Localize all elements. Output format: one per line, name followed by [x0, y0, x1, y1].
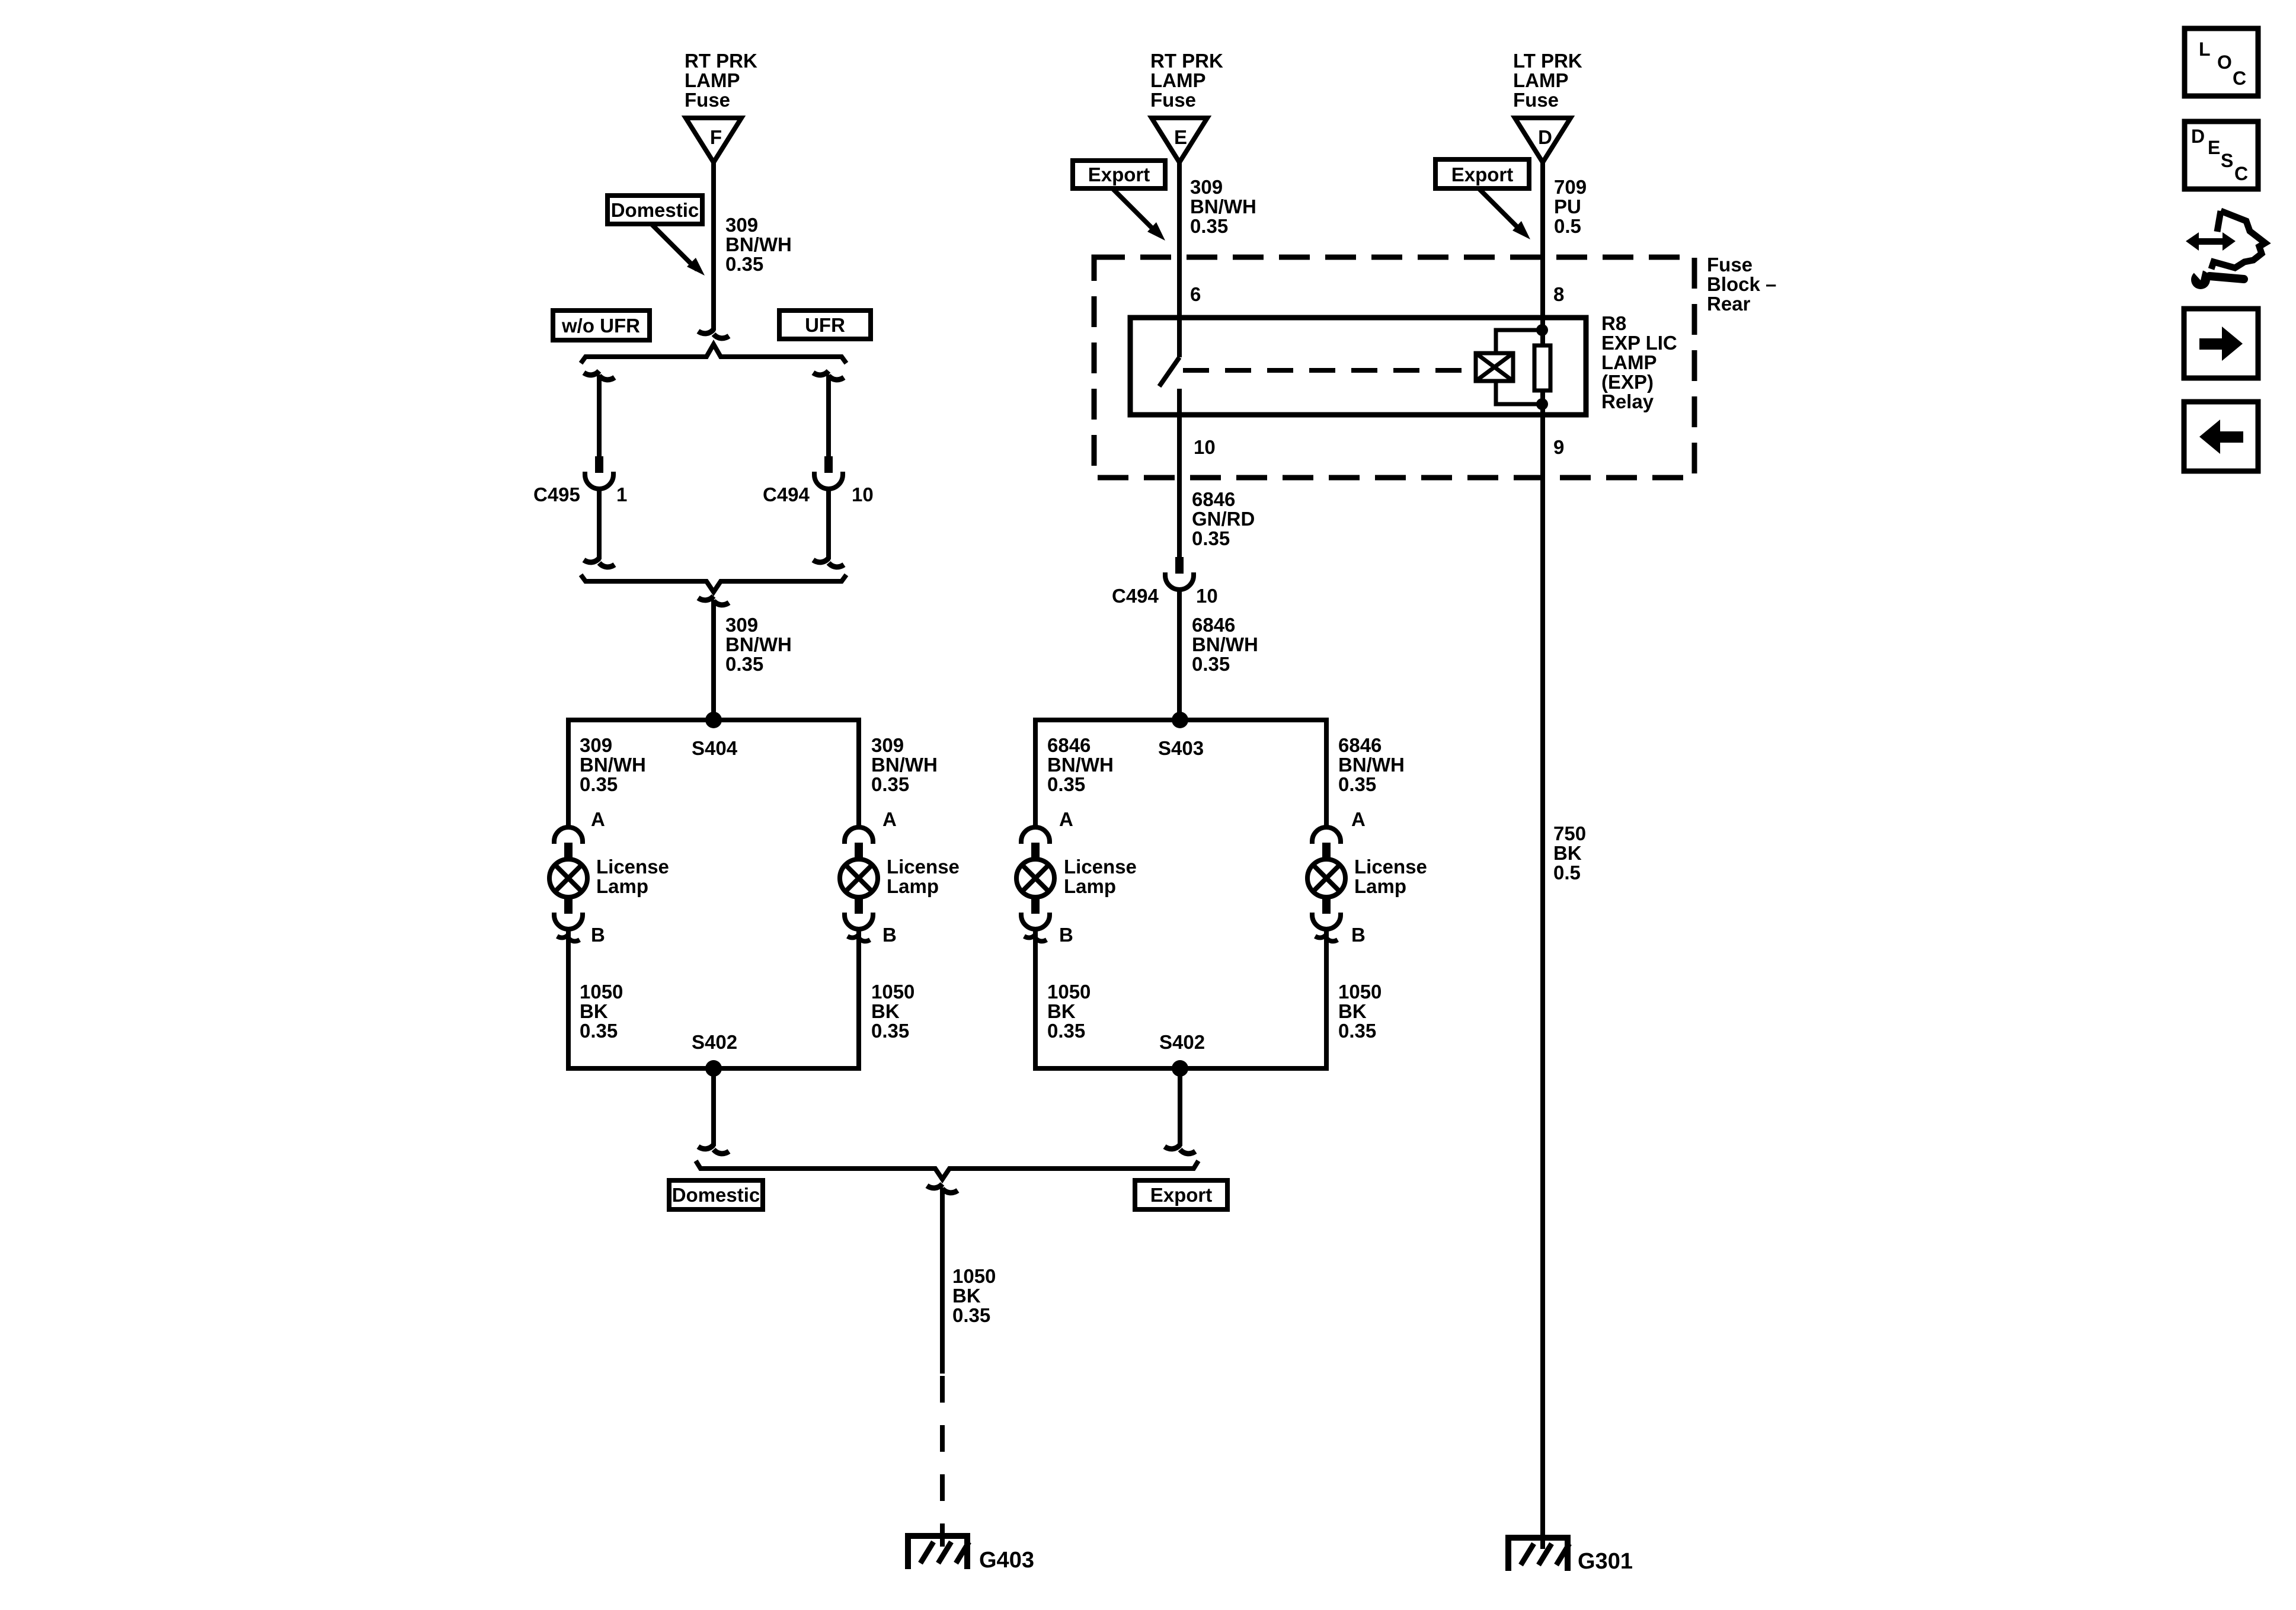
svg-text:0.35: 0.35 [1338, 773, 1376, 795]
svg-text:License: License [596, 856, 669, 878]
svg-text:LAMP: LAMP [1513, 69, 1569, 91]
svg-text:BK: BK [580, 1000, 608, 1022]
svg-text:0.35: 0.35 [725, 253, 763, 275]
svg-text:O: O [2217, 52, 2232, 73]
svg-text:Fuse: Fuse [685, 89, 730, 111]
svg-text:309: 309 [580, 734, 612, 756]
svg-text:0.35: 0.35 [1047, 1020, 1085, 1042]
svg-text:BN/WH: BN/WH [725, 633, 792, 655]
svg-text:309: 309 [725, 614, 758, 636]
svg-text:Fuse: Fuse [1707, 254, 1753, 276]
svg-text:BN/WH: BN/WH [1192, 633, 1258, 655]
svg-text:L: L [2199, 39, 2211, 60]
svg-text:C494: C494 [1112, 585, 1159, 607]
svg-text:Domestic: Domestic [672, 1184, 760, 1206]
svg-text:Lamp: Lamp [887, 875, 939, 897]
svg-text:B: B [591, 924, 605, 946]
svg-text:B: B [1059, 924, 1073, 946]
svg-text:License: License [1354, 856, 1427, 878]
svg-text:D: D [1538, 126, 1552, 148]
svg-text:C: C [2234, 163, 2248, 184]
svg-text:GN/RD: GN/RD [1192, 508, 1255, 530]
svg-text:0.5: 0.5 [1554, 215, 1581, 237]
svg-text:A: A [1351, 808, 1366, 830]
svg-text:PU: PU [1554, 196, 1581, 217]
svg-text:A: A [1059, 808, 1073, 830]
svg-text:1050: 1050 [952, 1265, 996, 1287]
svg-text:0.35: 0.35 [1047, 773, 1085, 795]
svg-text:License: License [887, 856, 960, 878]
svg-text:0.35: 0.35 [952, 1304, 990, 1326]
svg-text:S404: S404 [692, 737, 738, 759]
svg-text:BK: BK [1047, 1000, 1076, 1022]
svg-text:709: 709 [1554, 176, 1587, 198]
svg-text:Fuse: Fuse [1513, 89, 1559, 111]
svg-text:D: D [2191, 126, 2205, 147]
svg-text:Lamp: Lamp [1064, 875, 1116, 897]
svg-text:Fuse: Fuse [1150, 89, 1196, 111]
svg-text:1: 1 [616, 484, 627, 505]
svg-text:6846: 6846 [1192, 614, 1235, 636]
svg-text:B: B [1351, 924, 1366, 946]
svg-text:G403: G403 [979, 1548, 1034, 1573]
svg-text:RT PRK: RT PRK [1150, 50, 1223, 72]
svg-text:10: 10 [1194, 436, 1216, 458]
svg-text:0.35: 0.35 [871, 773, 909, 795]
svg-text:RT PRK: RT PRK [685, 50, 757, 72]
svg-text:Export: Export [1150, 1184, 1213, 1206]
svg-text:Relay: Relay [1601, 391, 1654, 412]
svg-text:A: A [882, 808, 897, 830]
svg-text:750: 750 [1553, 822, 1586, 844]
svg-text:Export: Export [1451, 164, 1514, 185]
svg-text:BK: BK [871, 1000, 900, 1022]
svg-text:BK: BK [952, 1285, 981, 1307]
svg-text:0.35: 0.35 [1190, 215, 1228, 237]
svg-text:0.35: 0.35 [580, 1020, 618, 1042]
svg-text:Block –: Block – [1707, 273, 1776, 295]
svg-text:6846: 6846 [1338, 734, 1382, 756]
svg-text:Rear: Rear [1707, 293, 1751, 315]
svg-text:S402: S402 [692, 1031, 737, 1053]
svg-text:10: 10 [852, 484, 874, 505]
svg-text:S403: S403 [1158, 737, 1204, 759]
svg-text:C: C [2233, 68, 2246, 89]
svg-text:1050: 1050 [1047, 981, 1091, 1003]
svg-text:BK: BK [1553, 842, 1582, 864]
svg-text:0.5: 0.5 [1553, 862, 1581, 884]
svg-text:BN/WH: BN/WH [1190, 196, 1256, 217]
svg-text:Lamp: Lamp [1354, 875, 1406, 897]
svg-text:BN/WH: BN/WH [1338, 754, 1405, 776]
svg-text:9: 9 [1553, 436, 1564, 458]
svg-text:LAMP: LAMP [685, 69, 740, 91]
svg-text:309: 309 [1190, 176, 1223, 198]
svg-text:LAMP: LAMP [1601, 351, 1657, 373]
svg-text:B: B [882, 924, 897, 946]
svg-text:0.35: 0.35 [580, 773, 618, 795]
svg-text:LAMP: LAMP [1150, 69, 1206, 91]
svg-text:309: 309 [725, 214, 758, 236]
svg-text:BN/WH: BN/WH [1047, 754, 1114, 776]
svg-text:UFR: UFR [805, 314, 845, 336]
svg-text:0.35: 0.35 [871, 1020, 909, 1042]
svg-text:1050: 1050 [871, 981, 914, 1003]
svg-text:C495: C495 [533, 484, 580, 505]
svg-text:6846: 6846 [1192, 488, 1235, 510]
svg-text:C494: C494 [763, 484, 810, 505]
svg-text:Export: Export [1088, 164, 1150, 185]
svg-text:EXP LIC: EXP LIC [1601, 332, 1677, 354]
svg-text:S402: S402 [1159, 1031, 1205, 1053]
svg-text:309: 309 [871, 734, 904, 756]
svg-text:(EXP): (EXP) [1601, 371, 1654, 393]
svg-text:BN/WH: BN/WH [725, 233, 792, 255]
svg-text:6: 6 [1190, 283, 1201, 305]
svg-text:0.35: 0.35 [1192, 527, 1230, 549]
svg-text:BK: BK [1338, 1000, 1367, 1022]
svg-text:BN/WH: BN/WH [580, 754, 646, 776]
svg-text:G301: G301 [1578, 1549, 1633, 1574]
svg-text:S: S [2221, 150, 2233, 171]
svg-text:10: 10 [1196, 585, 1218, 607]
svg-text:0.35: 0.35 [1338, 1020, 1376, 1042]
svg-text:License: License [1064, 856, 1137, 878]
svg-text:8: 8 [1553, 283, 1564, 305]
svg-text:0.35: 0.35 [1192, 653, 1230, 675]
svg-text:E: E [1174, 126, 1187, 148]
svg-text:6846: 6846 [1047, 734, 1091, 756]
svg-text:E: E [2208, 137, 2220, 158]
svg-text:w/o UFR: w/o UFR [561, 315, 640, 337]
svg-text:1050: 1050 [580, 981, 623, 1003]
svg-text:Domestic: Domestic [611, 199, 699, 221]
svg-text:Lamp: Lamp [596, 875, 648, 897]
svg-text:A: A [591, 808, 605, 830]
svg-text:LT PRK: LT PRK [1513, 50, 1582, 72]
svg-text:R8: R8 [1601, 312, 1626, 334]
svg-text:BN/WH: BN/WH [871, 754, 938, 776]
svg-text:0.35: 0.35 [725, 653, 763, 675]
svg-text:1050: 1050 [1338, 981, 1382, 1003]
svg-text:F: F [710, 126, 722, 148]
